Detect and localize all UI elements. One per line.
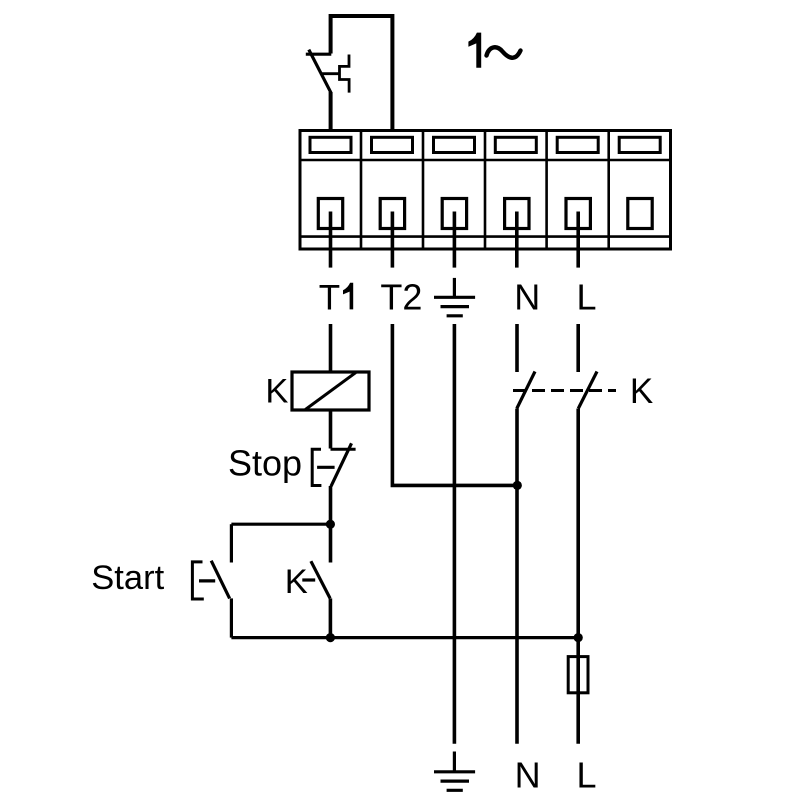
contactor main contact blade (N pole): [517, 372, 535, 409]
wire: coil to stop button: [329, 410, 333, 449]
contactor linkage dashed line: [513, 389, 616, 392]
wire: terminal T1 tail: [329, 212, 333, 268]
wire: protective earth run: [453, 324, 457, 744]
svg-text:N: N: [514, 277, 540, 318]
coil diagonal: [305, 373, 355, 410]
wire: stop button to start junction: [329, 486, 333, 563]
thermal switch blade: [309, 50, 331, 93]
contactor main contact blade (L pole): [578, 372, 597, 409]
wire: L upper lead: [576, 324, 580, 372]
wire: terminal T2 tail: [391, 212, 395, 268]
svg-text:Stop: Stop: [228, 442, 302, 483]
wire: terminal ground tail: [453, 212, 457, 268]
thermal trip actuator linkage: [340, 55, 350, 93]
actuator link to blade: [322, 72, 340, 75]
node: bottom rail to L junction: [574, 633, 583, 642]
node: start branch junction: [326, 520, 335, 529]
svg-text:L: L: [577, 277, 597, 318]
label 1~ (single phase): [468, 33, 481, 68]
start button blade (NO): [211, 561, 229, 599]
wire: branch to start button (horizontal): [231, 523, 330, 526]
svg-text:N: N: [515, 754, 541, 795]
terminal clamp slots (top row): [310, 137, 660, 152]
wire: holding contact lower lead: [329, 598, 333, 637]
svg-text:K: K: [285, 563, 308, 601]
start button actuator dash: [199, 579, 215, 582]
wire: N upper lead: [515, 324, 519, 372]
stop button bracket: [312, 449, 321, 485]
wire: L lower run: [576, 409, 580, 744]
holding contact actuator dash: [302, 578, 315, 581]
contactor coil K box: [292, 372, 369, 410]
ground symbol (top): [434, 278, 475, 316]
terminal block cell dividers: [361, 131, 609, 250]
wire: N lower run: [515, 409, 519, 744]
wire: T1 label to contactor coil: [329, 324, 333, 372]
wire: T2 down and across to N: [392, 324, 517, 485]
terminal block lower divider: [300, 235, 671, 238]
fuse F1: [568, 657, 588, 693]
svg-text:T: T: [319, 279, 340, 318]
svg-text:K: K: [265, 373, 288, 411]
wire: terminal N tail: [515, 212, 519, 268]
stop button fixed contact bar: [331, 448, 356, 451]
thermal switch fixed contact bar: [306, 53, 332, 56]
node: T2-N junction: [513, 481, 522, 490]
svg-text:Start: Start: [91, 559, 164, 597]
wire: motor loop T1-T2 with top bridge: [331, 16, 393, 131]
terminal screw ports (middle row): [318, 199, 652, 229]
holding contact blade (NO): [311, 561, 330, 598]
start button bracket: [192, 562, 203, 599]
wire: terminal L tail: [576, 212, 580, 268]
wire: start button upper lead: [230, 524, 233, 562]
stop button blade (NC): [331, 443, 352, 486]
svg-text:L: L: [577, 754, 597, 795]
svg-text:T2: T2: [380, 277, 422, 318]
wire: blade to terminal T1 top: [329, 92, 333, 131]
wire: bottom rail to L: [231, 636, 578, 639]
svg-text:K: K: [630, 372, 653, 411]
terminal block upper divider: [300, 159, 671, 162]
ground symbol (bottom): [434, 752, 475, 791]
stop button actuator dash: [317, 466, 335, 469]
terminal block outline: [300, 131, 671, 250]
node: bottom-left junction: [326, 633, 335, 642]
wire: start button lower lead: [230, 598, 233, 637]
